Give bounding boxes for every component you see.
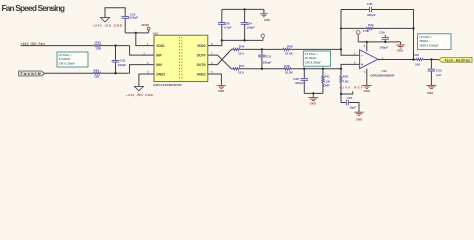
- wire node A down to INP jog: [130, 46, 155, 56]
- svg-text:LP Filter =: LP Filter =: [305, 52, 318, 56]
- svg-text:R41: R41: [324, 75, 330, 79]
- wire OUTN crossover: [208, 49, 232, 64]
- wire R40 to node B: [101, 72, 130, 74]
- wire feedback riser: [340, 10, 342, 50]
- svg-text:Tach_HallFan: Tach_HallFan: [445, 58, 471, 62]
- wire feedback top left: [341, 9, 369, 11]
- junction ground rail: [312, 92, 314, 94]
- svg-text:C36: C36: [379, 30, 385, 34]
- svg-text:U11: U11: [381, 69, 387, 73]
- junction C31 top: [261, 48, 263, 50]
- power flag +5V: [261, 34, 264, 40]
- wire R43 to node A: [101, 45, 129, 47]
- svg-text:+1V5_REF: +1V5_REF: [339, 86, 363, 90]
- svg-text:400kHz -: 400kHz -: [419, 39, 430, 43]
- wire minus-input jog: [341, 49, 360, 55]
- svg-text:13K: 13K: [94, 74, 100, 78]
- wire op-amp output: [378, 59, 416, 61]
- svg-text:AMC1200BDWVR: AMC1200BDWVR: [153, 83, 182, 87]
- svg-text:100R & 1000pF: 100R & 1000pF: [419, 43, 438, 47]
- power GND (top right): [260, 14, 270, 22]
- junction feedback tap: [340, 48, 342, 50]
- wire plus-input jog: [341, 64, 360, 68]
- svg-text:Fan Speed Sensing: Fan Speed Sensing: [2, 3, 66, 13]
- sheet background: [0, 0, 474, 121]
- svg-text:INP: INP: [156, 53, 162, 57]
- wire R42 to feedback right: [373, 27, 413, 29]
- wire VDD2 riser: [208, 25, 222, 46]
- capacitor C28: [218, 9, 232, 29]
- wire R48 to plus-input node: [291, 68, 341, 70]
- resistor R42: [363, 23, 374, 33]
- svg-text:R46: R46: [413, 53, 419, 57]
- LP filter note box 2: [303, 51, 330, 66]
- +5V rail: [222, 39, 263, 41]
- wire R42 branch: [341, 27, 366, 29]
- svg-text:100pF: 100pF: [246, 25, 255, 29]
- wire V- stem: [366, 69, 368, 86]
- svg-text:R47: R47: [239, 64, 245, 68]
- wire riser to VDD1: [136, 33, 155, 46]
- +5V rail (op-amp): [358, 41, 400, 43]
- svg-text:10.5K: 10.5K: [285, 71, 294, 75]
- power GND (op-amp V-): [362, 85, 372, 93]
- svg-text:330pF: 330pF: [295, 81, 304, 85]
- capacitor C33: [428, 60, 442, 86]
- junction C28 bottom: [221, 39, 223, 41]
- power GND (op-amp +5V rail): [396, 42, 404, 53]
- svg-text:R40: R40: [94, 68, 100, 72]
- op-amp U11 OPA2350AIDBVR: [360, 50, 396, 78]
- svg-text:7.5K: 7.5K: [342, 79, 349, 83]
- wire GND1: [139, 74, 154, 86]
- resistor R50 (vertical): [340, 69, 350, 94]
- svg-text:GND: GND: [218, 89, 224, 93]
- svg-text:TachIN: TachIN: [21, 72, 42, 76]
- resistor R44: [233, 45, 245, 56]
- power flag +5V (op-amp): [356, 31, 360, 42]
- junction R42 right: [412, 27, 414, 29]
- svg-text:R43: R43: [95, 41, 101, 45]
- junction C37 tap: [340, 93, 342, 95]
- resistor R40: [94, 68, 101, 78]
- svg-text:C35: C35: [367, 2, 373, 6]
- svg-text:R42: R42: [368, 23, 374, 27]
- wire R46 to connector: [423, 59, 441, 61]
- capacitor C38: [293, 69, 308, 94]
- wire GND stem: [263, 9, 265, 13]
- svg-text:INN: INN: [156, 63, 162, 67]
- svg-text:LP Filter =: LP Filter =: [59, 53, 72, 57]
- LP filter note box 3: [418, 34, 451, 50]
- svg-text:+5V_ISO: +5V_ISO: [141, 23, 150, 27]
- capacitor C36: [379, 30, 389, 49]
- svg-text:330pF: 330pF: [118, 63, 127, 67]
- svg-text:+24V_ISO_GND: +24V_ISO_GND: [93, 24, 123, 28]
- capacitor C31: [258, 49, 272, 68]
- svg-text:OUTP: OUTP: [197, 53, 207, 57]
- svg-text:GND1: GND1: [156, 72, 165, 76]
- resistor R41 (vertical): [322, 69, 331, 94]
- GND rail (top): [222, 8, 264, 10]
- junction node A: [114, 44, 116, 46]
- svg-text:GND: GND: [427, 91, 433, 95]
- svg-text:330pF: 330pF: [367, 13, 376, 17]
- junction plus-input node: [340, 68, 342, 70]
- svg-text:VDD2: VDD2: [197, 44, 206, 48]
- wire R44 to C31 junction: [240, 48, 283, 50]
- capacitor C19: [121, 12, 138, 33]
- svg-text:DNP: DNP: [323, 83, 329, 87]
- wire C19 bottom rail to +5V_ISO flag: [125, 32, 148, 34]
- wire V+ stem: [366, 42, 368, 52]
- wire OUTP crossover: [208, 55, 232, 69]
- svg-text:R44: R44: [239, 45, 245, 49]
- svg-text:GND: GND: [397, 48, 403, 52]
- resistor R48: [284, 64, 294, 74]
- svg-text:12.0: 12.0: [238, 51, 244, 55]
- svg-text:C37: C37: [347, 96, 353, 100]
- wire R47 to C31 junction: [240, 68, 284, 70]
- capacitor C34: [241, 9, 256, 40]
- wire GND2: [208, 74, 222, 85]
- op-amp isolator U10 AMC1200BDWVR: [153, 32, 208, 88]
- svg-text:330pF: 330pF: [263, 60, 272, 64]
- junction C34 top: [243, 8, 245, 10]
- wire feedback top right: [372, 10, 414, 60]
- capacitor C32: [112, 46, 127, 74]
- resistor R47: [233, 64, 245, 75]
- svg-text:1nF: 1nF: [436, 73, 442, 77]
- LP filter note box 1: [57, 52, 88, 67]
- junction feedback/output: [412, 58, 414, 60]
- svg-text:7.5K: 7.5K: [363, 29, 370, 33]
- svg-text:10.5K: 10.5K: [285, 51, 294, 55]
- svg-text:12.0: 12.0: [238, 71, 244, 75]
- wire R45 to feedback tap: [290, 48, 341, 50]
- wire +1V5_REF stub: [341, 91, 353, 94]
- svg-text:OPA2350AIDBVR: OPA2350AIDBVR: [370, 73, 395, 77]
- junction R41: [322, 68, 324, 70]
- power GND (below C38/R41): [308, 93, 318, 105]
- svg-text:20.15kHz -: 20.15kHz -: [305, 56, 318, 60]
- svg-text:GND: GND: [364, 89, 370, 93]
- svg-text:12R & 330pF: 12R & 330pF: [305, 60, 321, 64]
- off-page connector Tach_HallFan: [439, 57, 472, 62]
- svg-text:R50: R50: [343, 75, 349, 79]
- power +24V_ISO_GND (below U10): [126, 86, 154, 96]
- power GND (below GND2): [217, 86, 225, 93]
- svg-text:24.048Hz -: 24.048Hz -: [59, 57, 72, 61]
- svg-text:U10: U10: [153, 32, 159, 36]
- svg-text:R45: R45: [287, 45, 293, 49]
- power flag +5V_ISO: [141, 23, 150, 33]
- svg-text:+: +: [361, 62, 364, 67]
- junction C34 bottom: [243, 39, 245, 41]
- svg-text:4.7µF: 4.7µF: [224, 25, 232, 29]
- svg-text:LP Filter =: LP Filter =: [419, 35, 432, 39]
- svg-text:C33: C33: [436, 68, 442, 72]
- resistor R46: [413, 53, 423, 66]
- svg-text:GND2: GND2: [197, 72, 206, 76]
- junction node B: [114, 72, 116, 74]
- svg-text:+24V_ISO_GND: +24V_ISO_GND: [126, 93, 154, 97]
- svg-text:GND: GND: [356, 117, 362, 121]
- wire C38/R41 ground rail: [304, 92, 323, 94]
- svg-text:13K & 330pF: 13K & 330pF: [59, 61, 75, 65]
- svg-text:GND: GND: [264, 18, 270, 22]
- power +24V_ISO_GND (top left): [93, 8, 126, 28]
- svg-text:13K: 13K: [96, 47, 102, 51]
- junction C38: [303, 68, 305, 70]
- junction C31 bottom: [261, 68, 263, 70]
- svg-text:100: 100: [415, 63, 420, 67]
- wire lower rail: [231, 68, 232, 70]
- wire upper rail: [231, 48, 232, 50]
- svg-text:R48: R48: [284, 64, 290, 68]
- power GND (below C33): [427, 85, 437, 95]
- wire TachIN to R40: [45, 72, 94, 74]
- junction VDD1 riser: [135, 32, 137, 34]
- resistor R43: [94, 41, 102, 51]
- svg-text:VDD1: VDD1: [156, 44, 165, 48]
- wire net +24V_ISO_Fan to R43: [21, 45, 95, 47]
- svg-text:C31: C31: [266, 54, 272, 58]
- svg-text:100pF: 100pF: [379, 45, 388, 49]
- svg-text:1000pF: 1000pF: [128, 15, 139, 19]
- svg-text:GND: GND: [310, 102, 316, 106]
- resistor R45: [283, 45, 294, 56]
- off-page connector TachIN: [19, 71, 45, 76]
- svg-text:10µF: 10µF: [349, 105, 356, 109]
- capacitor C35: [367, 2, 376, 17]
- junction C36: [384, 41, 386, 43]
- junction R42 left: [340, 27, 342, 29]
- junction C33 tap: [430, 58, 432, 60]
- svg-text:C32: C32: [120, 59, 126, 63]
- power GND (below C37): [354, 112, 363, 121]
- capacitor C37: [341, 94, 359, 112]
- wire node B up to INN: [130, 65, 155, 74]
- junction V+ rail: [366, 41, 368, 43]
- svg-text:OUTN: OUTN: [197, 63, 207, 67]
